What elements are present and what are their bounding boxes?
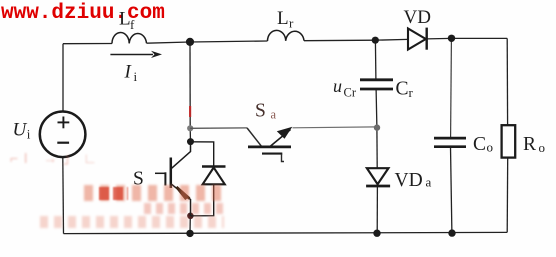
capacitor Cr (360, 80, 393, 89)
faint watermark row 1 (10, 148, 130, 166)
svg-text:VD: VD (404, 7, 431, 28)
wire Sa right tap down to diode VDa (376, 128, 378, 168)
svg-text:U: U (13, 120, 28, 141)
node C junction dot (448, 35, 455, 42)
svg-text:f: f (130, 17, 135, 32)
svg-text:a: a (271, 108, 277, 122)
diode VD (408, 28, 427, 50)
svg-text:r: r (409, 85, 414, 100)
svg-text:L: L (119, 9, 131, 30)
switch Sa auxiliary (horizontal IGBT) (190, 127, 377, 162)
wire top rail: L_f to node A (147, 42, 191, 43)
wire top rail: left corner to L_f (63, 43, 112, 45)
diode D antiparallel with S (191, 142, 226, 216)
wire right rail: corner down to resistor Ro top (506, 38, 508, 125)
node Sa right tap gray dot (374, 124, 380, 130)
svg-text:u: u (333, 76, 342, 96)
label I_i (124, 62, 138, 85)
inductor L_r (267, 30, 304, 41)
wire diode VDa down to bottom rail (376, 186, 378, 233)
diode VDa (366, 168, 390, 186)
node B junction dot (372, 37, 379, 44)
node bottom rail dot below Co (448, 229, 455, 236)
wire top rail: L_r to node B (304, 39, 375, 42)
arrow I_i current direction (110, 51, 162, 58)
node S collector junction dot (187, 138, 194, 145)
wire top rail: node B to diode VD anode (375, 38, 408, 41)
wire S emitter junction down to bottom rail (189, 216, 191, 234)
wire capacitor Cr down to Sa right tap (375, 89, 378, 127)
faint watermark row 2 bright part (99, 187, 128, 200)
node S emitter junction dot (187, 213, 194, 220)
wire top rail: node C to top-right corner (452, 37, 508, 39)
label L_r (277, 8, 294, 30)
wire left rail: corner down to source top (62, 44, 64, 112)
svg-text:r: r (289, 16, 294, 31)
svg-text:R: R (523, 134, 536, 155)
svg-text:S: S (255, 101, 266, 122)
svg-text:C: C (396, 79, 409, 100)
node bottom rail dot below VDa (373, 230, 380, 237)
wire top rail: node A to L_r (190, 41, 268, 42)
faint watermark row 3 (144, 203, 224, 214)
wire Sa tap down to S collector node (189, 128, 191, 141)
transistor S emitter arrowhead (177, 187, 190, 199)
node Sa left tap gray dot (187, 125, 193, 131)
wire right rail: resistor Ro bottom to corner (506, 158, 509, 233)
svg-text:C: C (473, 134, 486, 155)
label C_o (473, 134, 493, 155)
svg-text:Cr: Cr (344, 86, 357, 100)
svg-text:o: o (539, 140, 546, 155)
svg-text:i: i (134, 69, 138, 84)
wire node B down to capacitor Cr (374, 40, 377, 79)
resistor Ro (502, 125, 516, 157)
switch Sa emitter arrowhead (277, 127, 293, 139)
faint watermark row 2 (84, 185, 224, 201)
faint watermark row 4 (40, 216, 224, 228)
wire left rail: source bottom to bottom-left corner (62, 157, 65, 234)
wire node A down to Sa tap (189, 42, 191, 128)
transistor S (IGBT) (155, 143, 191, 216)
svg-text:VD: VD (395, 170, 423, 191)
wire top rail: VD cathode to node C (427, 37, 452, 40)
label VD_a (395, 170, 432, 191)
label S_a (255, 101, 277, 122)
label L_f (119, 9, 135, 33)
svg-text:L: L (277, 8, 289, 29)
voltage source U_i (40, 112, 86, 158)
label C_r (396, 79, 414, 101)
wire capacitor Co down to bottom rail (451, 147, 452, 233)
watermark www.dziuu.com (1, 2, 165, 25)
svg-text:i: i (27, 127, 31, 142)
capacitor Co (434, 138, 466, 147)
label U_i (13, 120, 31, 142)
svg-text:o: o (487, 140, 494, 155)
red watermark tick on wire (189, 106, 191, 117)
wire bottom rail (64, 232, 508, 233)
inductor L_f (112, 32, 147, 43)
label u_Cr (333, 76, 357, 100)
svg-text:a: a (426, 175, 432, 190)
svg-text:I: I (124, 62, 133, 83)
node A junction dot (186, 38, 194, 46)
node bottom rail dot below S (186, 230, 193, 237)
wire node C down to capacitor Co (450, 38, 453, 137)
label R_o (523, 134, 545, 155)
